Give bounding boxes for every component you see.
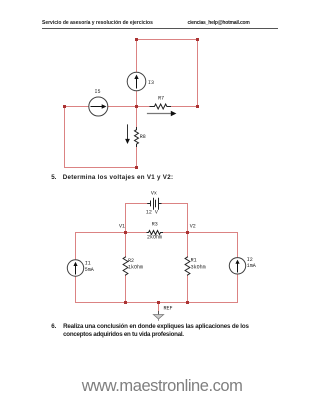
svg-text:5mA: 5mA [85, 267, 94, 273]
item 5 text [51, 174, 56, 181]
junction right (R7 / right vertical) [196, 105, 199, 108]
current source I3 [127, 72, 154, 91]
resistor R3 [147, 222, 163, 241]
current source I5 [89, 89, 108, 116]
wire R1 branch [187, 233, 189, 303]
svg-text:Vx: Vx [151, 191, 157, 197]
item 6 text [51, 323, 56, 330]
wire middle horizontal (circuit 1) [65, 106, 198, 108]
wire I3 branch vertical [136, 40, 138, 107]
svg-text:3kOhm: 3kOhm [191, 264, 206, 270]
current source I1 [67, 260, 93, 276]
svg-text:1mA: 1mA [247, 263, 256, 269]
junction top-left (I3 branch / top wire) [135, 38, 138, 41]
svg-text:R7: R7 [158, 96, 164, 102]
wire bottom (circuit 1) [65, 167, 137, 169]
ground REF stub [158, 303, 160, 312]
svg-text:V1: V1 [119, 223, 125, 229]
junction bottom R1 [186, 301, 189, 304]
node V2 junction [186, 231, 189, 234]
wire V2 upper vertical [187, 204, 189, 233]
footer [82, 377, 243, 396]
junction left (I5 wire / left vertical) [63, 105, 66, 108]
wire top (circuit 1) [137, 39, 198, 41]
svg-text:1kOhm: 1kOhm [128, 265, 143, 271]
junction bottom R2 [124, 301, 127, 304]
resistor R7 [150, 96, 171, 109]
ground REF symbol [153, 306, 172, 321]
junction center node (I3 / I5 / R7 / R8) [135, 105, 138, 108]
resistor R1 [185, 257, 206, 275]
resistor R2 [123, 257, 143, 275]
wire top battery row [126, 203, 188, 205]
svg-text:2kOhm: 2kOhm [147, 235, 162, 241]
wire R2 branch [125, 233, 127, 303]
junction top-right corner [196, 38, 199, 41]
svg-text:12 V: 12 V [146, 210, 158, 216]
current direction arrow left of R8 [125, 125, 130, 144]
svg-text:R8: R8 [140, 134, 146, 140]
svg-text:R3: R3 [152, 222, 158, 228]
current direction arrow right of R7 [148, 111, 177, 116]
junction bottom (R8 / bottom wire) [135, 166, 138, 169]
wire middle row circuit 2 [76, 232, 238, 234]
current source I2 [229, 257, 255, 274]
wire R8 branch vertical [136, 107, 138, 168]
svg-text:V2: V2 [190, 223, 196, 229]
svg-text:R1: R1 [191, 257, 197, 263]
svg-text:R2: R2 [128, 258, 134, 264]
header right email [188, 20, 250, 26]
wire left vertical (circuit 1) [64, 107, 66, 168]
wire bottom circuit 2 [76, 302, 238, 304]
svg-text:I1: I1 [85, 261, 91, 267]
battery Vx [146, 191, 161, 216]
resistor R8 [135, 128, 146, 147]
svg-text:REF: REF [164, 306, 173, 312]
wire right vertical (circuit 1) [197, 40, 199, 107]
node V1 junction [124, 231, 127, 234]
svg-text:I5: I5 [95, 89, 101, 95]
header left text [42, 20, 153, 26]
header rule [42, 28, 278, 29]
wire V1 upper vertical [125, 204, 127, 233]
wire left vertical circuit 2 [75, 233, 77, 303]
junction bottom REF [157, 301, 160, 304]
wire right vertical circuit 2 [237, 233, 239, 303]
svg-text:I3: I3 [148, 80, 154, 86]
